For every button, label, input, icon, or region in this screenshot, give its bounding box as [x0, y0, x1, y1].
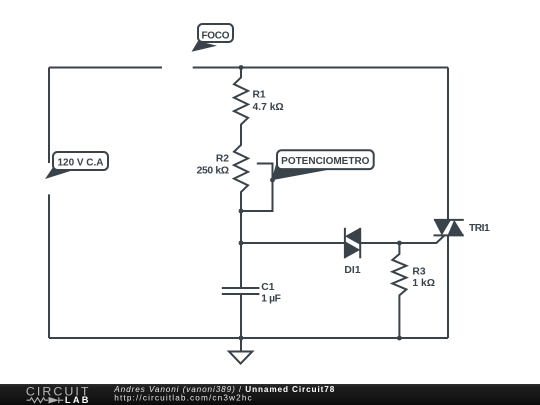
- svg-text:C1: C1: [261, 282, 274, 293]
- svg-text:POTENCIOMETRO: POTENCIOMETRO: [281, 156, 370, 167]
- svg-text:R1: R1: [253, 90, 266, 101]
- svg-text:250 kΩ: 250 kΩ: [197, 165, 229, 176]
- svg-text:DI1: DI1: [344, 265, 360, 276]
- svg-text:R2: R2: [216, 154, 229, 165]
- svg-text:http://circuitlab.com/cn3w2hc: http://circuitlab.com/cn3w2hc: [114, 394, 252, 403]
- svg-text:R3: R3: [412, 267, 425, 278]
- svg-text:Andres Vanoni (vanoni389) / Un: Andres Vanoni (vanoni389) / Unnamed Circ…: [113, 385, 335, 394]
- svg-text:120 V C.A: 120 V C.A: [58, 158, 104, 169]
- svg-text:1 µF: 1 µF: [261, 294, 281, 305]
- svg-text:FOCO: FOCO: [202, 31, 230, 42]
- svg-text:4.7 kΩ: 4.7 kΩ: [253, 102, 284, 113]
- svg-text:1 kΩ: 1 kΩ: [412, 278, 435, 289]
- svg-text:TRI1: TRI1: [469, 223, 490, 234]
- svg-text:LAB: LAB: [65, 395, 89, 405]
